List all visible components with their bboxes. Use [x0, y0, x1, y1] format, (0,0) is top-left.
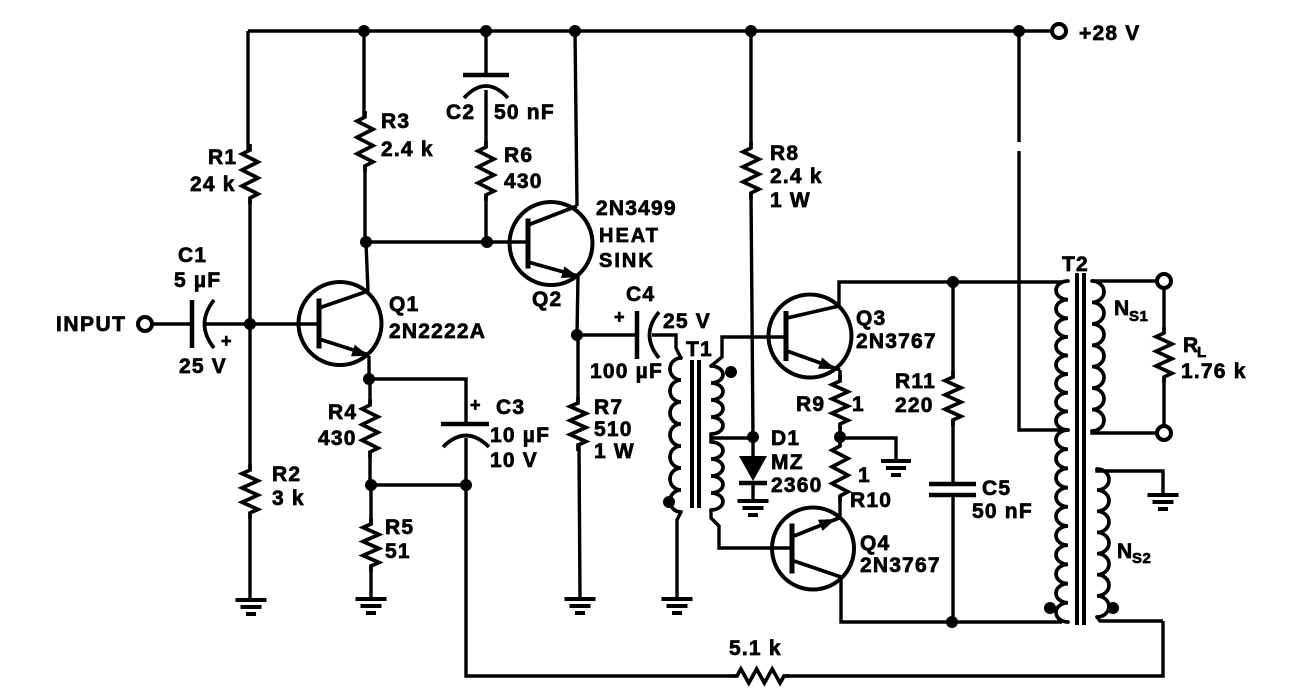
- wire Q1 emitter diag: [319, 339, 369, 356]
- resistor R5: [363, 518, 379, 572]
- svg-text:25 V: 25 V: [179, 355, 227, 378]
- svg-text:SINK: SINK: [599, 250, 655, 272]
- wire R8 top lead: [749, 31, 752, 148]
- svg-text:24 k: 24 k: [190, 173, 236, 196]
- svg-text:T2: T2: [1062, 253, 1089, 276]
- wire R9 to junction: [838, 424, 841, 437]
- label R7 power: [594, 440, 635, 463]
- svg-text:Q1: Q1: [389, 293, 419, 316]
- label INPUT: [56, 313, 127, 336]
- wire NS2 top to ground: [1097, 469, 1163, 494]
- svg-text:S2: S2: [1132, 550, 1151, 567]
- wire +28V feed to T2 center tap: [1019, 31, 1062, 430]
- wire Q3 emitter diag: [787, 351, 840, 370]
- terminal +28 V: [1052, 24, 1066, 38]
- wire T1 secondary bottom to Q4 base: [711, 510, 792, 548]
- svg-text:2360: 2360: [771, 474, 823, 497]
- wire Q1 collector to base node: [366, 243, 368, 291]
- node C3 bottom junction: [460, 479, 472, 491]
- label R8 value: [770, 165, 823, 188]
- label Q2 sink: [599, 250, 655, 272]
- label R9: [796, 393, 825, 416]
- transformer T2 primary upper: [1056, 281, 1068, 430]
- wire T1 primary bottom lead: [677, 512, 681, 598]
- wire R4/R5 node to C3 node: [371, 483, 466, 486]
- svg-text:R3: R3: [381, 110, 410, 133]
- svg-text:25 V: 25 V: [663, 310, 711, 333]
- resistor R6: [478, 141, 494, 201]
- svg-text:5 µF: 5 µF: [174, 269, 221, 292]
- node T2 primary phase dot: [1044, 602, 1056, 614]
- label Q3: [856, 307, 886, 330]
- node T1 secondary phase dot: [725, 366, 737, 378]
- transistor Q1 2N2222A: [299, 282, 382, 365]
- wire R8 to center tap node: [751, 193, 753, 437]
- wire Q4 emitter diag: [794, 518, 839, 536]
- wire R3 bottom lead: [363, 166, 366, 242]
- svg-text:R1: R1: [208, 146, 237, 169]
- ground under R5: [356, 599, 387, 613]
- svg-text:2.4 k: 2.4 k: [381, 138, 434, 161]
- wire R11 top lead: [951, 282, 954, 377]
- label R10 value: [858, 464, 871, 487]
- wire Q2 collector diag: [528, 206, 577, 225]
- svg-text:10 V: 10 V: [490, 449, 538, 472]
- svg-text:+28 V: +28 V: [1079, 22, 1140, 45]
- node R8 rail junction: [745, 25, 757, 37]
- label D1: [771, 427, 800, 450]
- label Q4 type: [860, 554, 941, 577]
- svg-text:R7: R7: [594, 396, 623, 419]
- label R8: [770, 142, 799, 165]
- node R6/base-wire junction: [481, 236, 493, 248]
- label C4: [626, 283, 655, 306]
- resistor R4: [362, 399, 378, 458]
- resistor 5.1k feedback: [731, 669, 790, 683]
- svg-text:Q3: Q3: [856, 307, 886, 330]
- svg-text:430: 430: [318, 427, 357, 450]
- capacitor C3: [441, 424, 489, 447]
- label NS2: [1117, 540, 1151, 567]
- wire R4 leads: [368, 379, 371, 485]
- svg-text:2N3767: 2N3767: [860, 554, 941, 577]
- wire R10 to Q4 emitter: [838, 496, 841, 518]
- wire T1 secondary joiner: [709, 434, 712, 442]
- label R3 value: [381, 138, 434, 161]
- wire R6 bottom lead: [484, 195, 487, 242]
- wire C5 bottom lead: [951, 495, 954, 622]
- svg-text:1 W: 1 W: [770, 189, 811, 212]
- label R5 value: [385, 540, 411, 563]
- svg-text:2N3499: 2N3499: [596, 197, 677, 220]
- node Q2 collector rail junction: [569, 25, 581, 37]
- capacitor C4: [637, 311, 659, 359]
- wire RL bottom lead: [1162, 377, 1165, 426]
- transformer T1 secondary upper: [711, 366, 723, 434]
- label C1: [178, 244, 207, 267]
- wire R11 to C5: [951, 420, 954, 484]
- resistor R11: [945, 371, 961, 426]
- wire +28V supply rail: [248, 29, 1059, 32]
- node D1/R8/center-tap junction: [747, 431, 759, 443]
- label C5 value: [972, 500, 1033, 523]
- label R10: [850, 489, 892, 512]
- svg-text:220: 220: [895, 394, 934, 417]
- svg-text:R4: R4: [328, 401, 357, 424]
- wire R5 leads: [369, 485, 372, 598]
- label R4: [328, 401, 357, 424]
- svg-text:2N3767: 2N3767: [856, 330, 937, 353]
- resistor R3: [357, 111, 373, 172]
- node R9/R10/ground junction: [834, 431, 846, 443]
- wire NS1 bottom lead: [1092, 431, 1157, 433]
- svg-text:3 k: 3 k: [272, 487, 305, 510]
- svg-text:2.4 k: 2.4 k: [770, 165, 823, 188]
- ground at NS2: [1148, 495, 1179, 509]
- wire R3 top lead: [362, 31, 365, 117]
- label C3 voltage: [490, 449, 538, 472]
- wire junction to ground: [840, 438, 896, 460]
- svg-text:C5: C5: [982, 477, 1011, 500]
- wire NS1 right to RL: [1162, 288, 1165, 333]
- svg-text:430: 430: [504, 170, 543, 193]
- svg-text:Q4: Q4: [860, 532, 890, 555]
- transformer T1 core: [692, 360, 699, 508]
- svg-text:MZ: MZ: [771, 451, 804, 474]
- svg-text:C1: C1: [178, 244, 207, 267]
- svg-text:S1: S1: [1129, 308, 1148, 325]
- label Q1 type: [389, 320, 486, 343]
- svg-text:510: 510: [594, 418, 633, 441]
- label Q2 heat: [599, 225, 660, 247]
- wire Q2 emitter down: [577, 276, 578, 335]
- wire feedback right side: [790, 621, 1163, 676]
- label R11 value: [895, 394, 934, 417]
- svg-text:2N2222A: 2N2222A: [389, 320, 486, 343]
- transformer T2 core: [1077, 273, 1084, 625]
- svg-text:R6: R6: [504, 144, 533, 167]
- ground under R2: [236, 600, 267, 614]
- wire NS2 bottom lead: [1097, 617, 1163, 621]
- label C4 value: [590, 360, 663, 383]
- wire Q3 collector diag: [787, 306, 839, 318]
- label R7 value: [594, 418, 633, 441]
- svg-text:1.76 k: 1.76 k: [1181, 360, 1247, 383]
- label Q3 type: [856, 330, 937, 353]
- label R2 value: [272, 487, 305, 510]
- svg-text:+: +: [614, 307, 625, 327]
- label C4 polarity +: [614, 307, 625, 327]
- wire R1 top lead: [246, 31, 249, 150]
- node R3/Q1 collector junction: [360, 236, 372, 248]
- label R11: [895, 370, 936, 393]
- label T2: [1062, 253, 1089, 276]
- svg-text:R2: R2: [272, 463, 301, 486]
- svg-text:10 µF: 10 µF: [490, 424, 550, 447]
- label C1 voltage: [179, 355, 227, 378]
- wire R7 bottom lead: [579, 445, 580, 598]
- svg-text:50 nF: 50 nF: [972, 500, 1033, 523]
- label R2: [272, 463, 301, 486]
- terminal INPUT: [138, 317, 152, 331]
- resistor R2: [242, 464, 258, 519]
- label C5: [982, 477, 1011, 500]
- ground under D1: [738, 501, 769, 515]
- transistor Q2 2N3499: [510, 202, 593, 285]
- wire R1 to R2: [248, 198, 251, 470]
- terminal NS1 top: [1157, 274, 1171, 288]
- label RL: [1183, 334, 1207, 361]
- wire C4 to T1: [652, 335, 681, 358]
- label C4 voltage: [663, 310, 711, 333]
- label Q2 type: [596, 197, 677, 220]
- transformer T2 secondary NS1: [1092, 281, 1104, 431]
- svg-text:+: +: [221, 331, 232, 351]
- node +28V rail junction: [1013, 25, 1025, 37]
- wire C1 to base node: [206, 322, 318, 325]
- node NS2 phase dot: [1107, 602, 1119, 614]
- svg-text:1: 1: [858, 464, 871, 487]
- svg-text:HEAT: HEAT: [599, 225, 660, 247]
- label T1: [686, 338, 713, 361]
- label C3: [496, 396, 525, 419]
- wire T1 center tap to D1 node: [711, 436, 753, 439]
- node R4/R5 junction: [365, 479, 377, 491]
- resistor R8: [743, 142, 759, 199]
- svg-text:T1: T1: [686, 338, 713, 361]
- wire input to C1: [152, 322, 192, 325]
- node T1 primary phase dot: [663, 496, 675, 508]
- ground at R9/R10 node: [881, 461, 911, 475]
- label R1: [208, 146, 237, 169]
- label R6 value: [504, 170, 543, 193]
- wire R7 top lead: [576, 335, 579, 403]
- label Q1: [389, 293, 419, 316]
- label +28 V: [1079, 22, 1140, 45]
- label C2: [446, 101, 475, 124]
- label R7: [594, 396, 623, 419]
- svg-text:R5: R5: [385, 516, 414, 539]
- transformer T2 secondary NS2: [1097, 469, 1109, 617]
- svg-text:L: L: [1197, 344, 1207, 361]
- label Q4: [860, 532, 890, 555]
- resistor RL: [1156, 327, 1172, 383]
- svg-text:C3: C3: [496, 396, 525, 419]
- node R3 rail junction: [358, 25, 370, 37]
- label R8 power: [770, 189, 811, 212]
- wire Q4 collector to bottom rail: [841, 577, 1062, 622]
- wire NS1 top lead: [1092, 279, 1157, 282]
- svg-text:100 µF: 100 µF: [590, 360, 663, 383]
- svg-text:51: 51: [385, 540, 411, 563]
- node C1/R1/R2 junction: [244, 318, 256, 330]
- transistor Q3 2N3767: [769, 295, 852, 378]
- svg-text:R11: R11: [895, 370, 936, 393]
- svg-text:D1: D1: [771, 427, 800, 450]
- label C2 value: [494, 101, 555, 124]
- capacitor C2: [463, 75, 509, 98]
- label C3 polarity +: [470, 395, 481, 415]
- svg-text:Q2: Q2: [532, 288, 562, 311]
- ground under R7: [565, 599, 596, 613]
- svg-text:R10: R10: [850, 489, 892, 512]
- node C4/R7/Q2 junction: [571, 329, 583, 341]
- ground under T1: [662, 599, 693, 613]
- label Q2: [532, 288, 562, 311]
- label R1 value: [190, 173, 236, 196]
- node C5 bottom junction: [946, 616, 958, 628]
- wire T1 secondary top to Q3 base: [711, 337, 786, 366]
- wire C3 bottom lead: [464, 438, 467, 485]
- wire Q3 emitter to R9: [838, 370, 841, 381]
- wire Q1 emitter down: [367, 356, 370, 379]
- svg-text:C4: C4: [626, 283, 655, 306]
- svg-text:1: 1: [852, 393, 865, 416]
- label R6: [504, 144, 533, 167]
- label NS1: [1114, 297, 1148, 325]
- svg-text:R8: R8: [770, 142, 799, 165]
- transformer T2 primary lower: [1056, 430, 1068, 622]
- transformer T1 primary winding: [670, 358, 681, 512]
- node R11 top junction: [947, 276, 959, 288]
- wire Q2 collector to rail: [575, 31, 577, 206]
- node Q1 emitter junction: [363, 373, 375, 385]
- svg-text:50 nF: 50 nF: [494, 101, 555, 124]
- transformer T1 secondary lower: [711, 442, 723, 510]
- capacitor C5: [929, 484, 976, 495]
- wire emitter node to C3: [369, 379, 466, 424]
- resistor R7: [570, 397, 586, 451]
- node C2 rail junction: [480, 25, 492, 37]
- label R5: [385, 516, 414, 539]
- label D1 value: [771, 474, 823, 497]
- wire base node to Q2: [366, 240, 528, 243]
- wire C4 left lead: [577, 333, 637, 336]
- svg-text:C2: C2: [446, 101, 475, 124]
- transistor Q4 2N3767: [772, 508, 854, 590]
- resistor R9: [832, 375, 848, 430]
- svg-text:N: N: [1114, 297, 1130, 320]
- label C1 value: [174, 269, 221, 292]
- diode D1 MZ2360: [739, 437, 767, 500]
- svg-text:INPUT: INPUT: [56, 313, 127, 336]
- label R3: [381, 110, 410, 133]
- wire Q2 emitter diag: [528, 262, 579, 278]
- wire C2 top lead: [484, 31, 487, 73]
- svg-text:R9: R9: [796, 393, 825, 416]
- label R9 value: [852, 393, 865, 416]
- svg-text:N: N: [1117, 540, 1133, 563]
- label R4 value: [318, 427, 357, 450]
- svg-text:+: +: [470, 395, 481, 415]
- wire feedback left side: [466, 490, 731, 676]
- label C3 value: [490, 424, 550, 447]
- wire Q1 collector diag: [319, 291, 368, 308]
- wire Q4 collector diag: [794, 561, 841, 577]
- svg-text:5.1 k: 5.1 k: [729, 637, 782, 660]
- label RL value: [1181, 360, 1247, 383]
- label feedback resistor value: [729, 637, 782, 660]
- wire Q3 collector to T2: [839, 282, 1062, 306]
- svg-text:1 W: 1 W: [594, 440, 635, 463]
- resistor R10: [832, 440, 848, 502]
- capacitor C1: [192, 300, 214, 348]
- wire R2 bottom lead: [248, 513, 251, 599]
- resistor R1: [242, 144, 258, 204]
- label C1 polarity +: [221, 331, 232, 351]
- label D1 type: [771, 451, 804, 474]
- wire C2 to R6: [484, 90, 487, 147]
- terminal NS1 bottom: [1157, 426, 1171, 440]
